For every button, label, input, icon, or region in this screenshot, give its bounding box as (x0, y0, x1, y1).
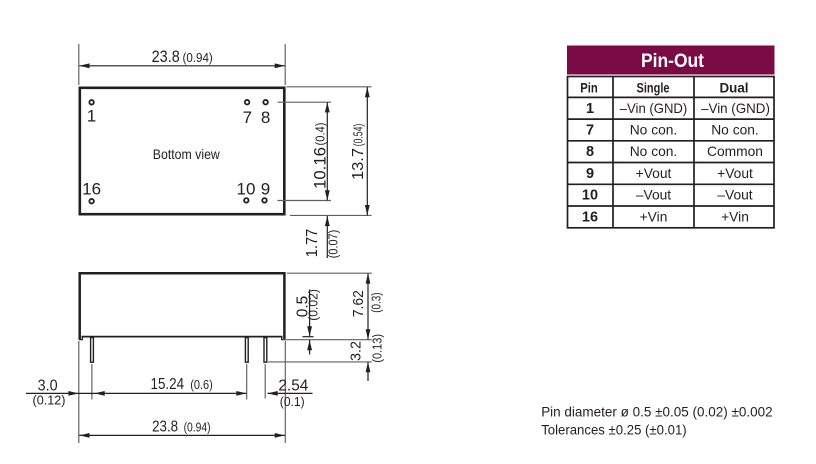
svg-text:9: 9 (261, 180, 270, 199)
extension line pins bottom right (3.2 dim) (268, 361, 372, 363)
extension line pin row 7/8 (10.16 dim) (278, 101, 332, 103)
arrowhead left of 15.24 dim (95, 391, 105, 396)
svg-text:(0.6): (0.6) (190, 377, 213, 392)
pin-out table row line 3 (568, 140, 775, 142)
arrowhead right of 15.24 dim (236, 391, 246, 396)
svg-text:(0.3): (0.3) (369, 292, 384, 312)
svg-text:Dual: Dual (720, 79, 749, 95)
svg-text:15.24: 15.24 (151, 376, 185, 393)
svg-text:8: 8 (586, 144, 594, 160)
svg-text:–Vin (GND): –Vin (GND) (701, 101, 770, 116)
pin-out table row line 4 (568, 162, 775, 164)
svg-text:+Vout: +Vout (636, 166, 672, 181)
1.77 dim arrow (points up to body bottom) (325, 216, 330, 226)
svg-text:Pin diameter ø 0.5 ±0.05 (0.0: Pin diameter ø 0.5 ±0.05 (0.02) ±0.002 (541, 405, 772, 420)
svg-text:+Vin: +Vin (640, 209, 668, 224)
arrowhead bottom of 10.16 dim (325, 190, 330, 200)
side view body outline (80, 273, 285, 339)
svg-text:16: 16 (582, 209, 598, 225)
1.77 dim stem (326, 216, 328, 258)
svg-text:Common: Common (707, 144, 763, 159)
svg-text:7.62: 7.62 (350, 290, 367, 317)
pin-out table column divider 1 (612, 77, 614, 228)
extension line below body left (78, 341, 80, 443)
extension line body bottom right (13.7 dim) (290, 214, 372, 216)
side view pin left (91, 338, 94, 363)
svg-text:(0.02): (0.02) (306, 289, 321, 321)
bottom view body outline (80, 88, 284, 214)
svg-text:1: 1 (586, 101, 594, 117)
svg-text:23.8: 23.8 (152, 47, 180, 66)
svg-text:(0.1): (0.1) (280, 394, 305, 409)
0.5 dim lower arrow (points up) (307, 340, 312, 350)
extension line below pin right (264, 364, 266, 399)
svg-text:(0.13): (0.13) (369, 334, 384, 363)
svg-text:No con.: No con. (711, 123, 759, 138)
pin-out table row line 1 (568, 96, 775, 98)
extension line below pin middle (246, 364, 248, 400)
dimension line 23.8 bottom (79, 434, 285, 436)
2.54 dim stem (268, 392, 313, 394)
svg-text:–Vout: –Vout (717, 188, 752, 203)
svg-text:(0.12): (0.12) (33, 393, 66, 408)
svg-text:13.7: 13.7 (350, 148, 367, 180)
0.5 dim upper arrow (points down) (307, 326, 312, 336)
arrowhead left of top 23.8 dim (79, 63, 89, 68)
side view right lip notch (282, 337, 285, 340)
side view pin middle (245, 338, 248, 363)
0.5 dim tick at lip top (303, 336, 314, 338)
svg-text:Tolerances ±0.25 (±0.01): Tolerances ±0.25 (±0.01) (541, 422, 687, 437)
extension line below body right (284, 341, 286, 443)
side view bottom lip line (82, 336, 283, 338)
pin-out table row line 5 (568, 183, 775, 185)
svg-text:3.2: 3.2 (347, 341, 364, 361)
extension line body top right (13.7 dim) (287, 86, 372, 88)
svg-text:2.54: 2.54 (278, 378, 308, 395)
svg-text:9: 9 (586, 166, 594, 182)
pin-out table row line 6 (568, 205, 775, 207)
extension line body top right side view (7.62 dim) (287, 272, 372, 274)
arrowhead bottom of 13.7 dim (365, 205, 370, 215)
pin 8 hole (263, 100, 268, 105)
pin-out table header band (567, 46, 775, 75)
extension line below pin left (91, 364, 93, 400)
svg-text:7: 7 (586, 123, 594, 139)
svg-text:1: 1 (87, 107, 96, 126)
side view pin right (264, 338, 267, 363)
svg-text:Bottom view: Bottom view (153, 147, 220, 162)
svg-text:16: 16 (82, 179, 101, 198)
extension line left (23.8 top dim) (78, 44, 80, 85)
arrowhead top of 10.16 dim (325, 102, 330, 112)
svg-text:–Vin (GND): –Vin (GND) (620, 101, 688, 116)
svg-text:10: 10 (237, 180, 256, 199)
svg-text:No con.: No con. (630, 144, 678, 159)
pin-out table row line 2 (568, 118, 775, 120)
pin-out table column divider 2 (693, 77, 695, 228)
extension line lip bottom right (pins top level) (283, 339, 372, 341)
svg-text:Pin: Pin (580, 79, 598, 95)
svg-text:(0.54): (0.54) (351, 124, 366, 147)
2.54 dim arrow (points left at pin) (268, 391, 278, 396)
svg-text:23.8: 23.8 (152, 419, 178, 436)
dimension line 13.7 (366, 87, 368, 215)
extension line right (23.8 top dim) (284, 44, 286, 85)
3.2 dim lower stem (367, 362, 369, 381)
svg-text:Single: Single (637, 79, 670, 95)
svg-text:7: 7 (243, 108, 252, 127)
svg-text:8: 8 (261, 108, 270, 127)
side view left lip notch (79, 337, 82, 340)
3.2 dim lower arrow (points up at pins bottom) (366, 362, 371, 372)
pin-out table outer border (568, 77, 775, 228)
svg-text:–Vout: –Vout (636, 188, 671, 203)
dimension line 3.0 / 15.24 shared (26, 392, 247, 394)
pin 1 hole (89, 100, 94, 105)
svg-text:(0.07): (0.07) (326, 230, 341, 258)
extension line pin row 10/9 (10.16 dim) (278, 200, 332, 202)
arrowhead left of bottom 23.8 dim (79, 433, 89, 438)
svg-text:No con.: No con. (630, 123, 678, 138)
pin 7 hole (245, 100, 250, 105)
dimension line 23.8 top (79, 65, 285, 67)
arrowhead right of bottom 23.8 dim (275, 433, 285, 438)
0.5 dim upper stem (309, 290, 311, 337)
arrowhead top of 7.62 dim (366, 273, 371, 283)
dimension line 7.62 (367, 273, 369, 339)
arrowhead bottom of 7.62 dim (366, 329, 371, 339)
svg-text:(0.4): (0.4) (313, 123, 328, 146)
pin 9 hole (262, 198, 267, 203)
svg-text:+Vout: +Vout (717, 166, 753, 181)
svg-text:Pin-Out: Pin-Out (641, 51, 705, 72)
svg-text:+Vin: +Vin (721, 209, 749, 224)
pin 16 hole (89, 199, 94, 204)
svg-text:10: 10 (582, 188, 598, 204)
svg-text:(0.94): (0.94) (184, 420, 211, 435)
svg-text:10.16: 10.16 (310, 147, 329, 189)
svg-text:1.77: 1.77 (304, 229, 321, 257)
arrowhead right of top 23.8 dim (275, 63, 285, 68)
pin 10 hole (244, 198, 249, 203)
svg-text:(0.94): (0.94) (183, 50, 213, 65)
arrowhead top of 13.7 dim (365, 87, 370, 97)
0.5 dim lower stem (309, 340, 311, 355)
dimension line 10.16 (326, 102, 328, 200)
arrowhead of 3.0 dim (points right at body edge) (68, 391, 78, 396)
